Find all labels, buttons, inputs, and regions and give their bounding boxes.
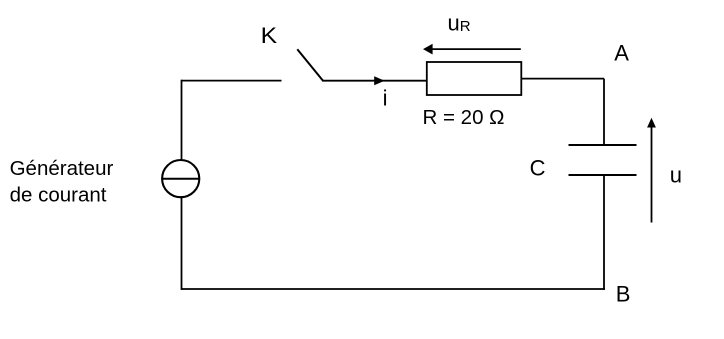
svg-text:B: B [616,281,631,306]
svg-text:uR: uR [448,10,471,35]
svg-text:i: i [383,86,388,111]
svg-text:de courant: de courant [10,183,107,206]
svg-text:Générateur: Générateur [10,157,114,180]
svg-text:u: u [670,163,682,188]
svg-text:K: K [261,23,278,48]
svg-text:R = 20 Ω: R = 20 Ω [423,106,505,129]
svg-text:A: A [614,40,629,65]
svg-text:C: C [530,155,546,180]
